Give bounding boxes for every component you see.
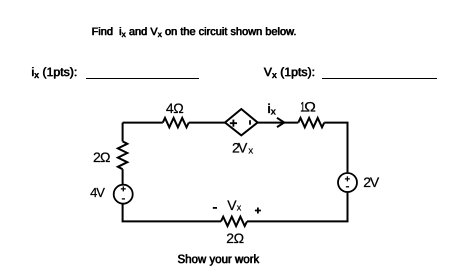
svg-text:x: x [271,107,277,118]
svg-text:2V: 2V [363,174,380,190]
svg-text:2Ω: 2Ω [93,149,111,165]
svg-text:x: x [248,145,253,156]
svg-text:4Ω: 4Ω [166,100,184,116]
svg-text:2Ω: 2Ω [226,230,244,246]
svg-text:2V: 2V [232,139,248,155]
svg-text:V: V [227,197,237,213]
svg-text:Ω: Ω [304,99,316,115]
svg-text:4V: 4V [90,185,105,200]
svg-text:x: x [237,203,242,213]
